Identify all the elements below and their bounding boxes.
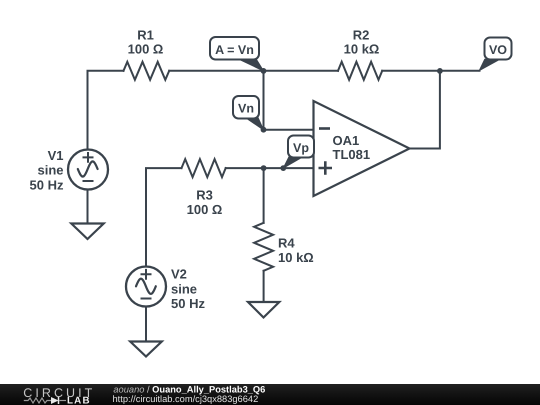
svg-text:10 kΩ: 10 kΩ bbox=[278, 250, 314, 265]
wire Vn node to op-amp inverting input bbox=[264, 129, 314, 131]
wire V1 top lead up and across to R1 bbox=[88, 71, 124, 150]
svg-text:R4: R4 bbox=[278, 235, 295, 250]
wire V2 bottom lead to ground bbox=[145, 307, 147, 342]
op-amp OA1 bbox=[314, 101, 410, 196]
node Vp junction dot bbox=[280, 165, 286, 171]
voltage source V1 bbox=[30, 148, 108, 192]
ground for V1 bbox=[71, 224, 103, 240]
footer title text bbox=[100, 384, 540, 405]
svg-text:50 Hz: 50 Hz bbox=[171, 296, 205, 311]
footer bar bbox=[0, 384, 540, 405]
svg-text:http://circuitlab.com/cj3qx883: http://circuitlab.com/cj3qx883g6642 bbox=[113, 394, 259, 404]
svg-text:sine: sine bbox=[37, 163, 63, 178]
svg-text:Vp: Vp bbox=[293, 141, 309, 155]
svg-text:LAB: LAB bbox=[67, 396, 91, 405]
resistor R1 bbox=[124, 62, 170, 80]
flag A = Vn bbox=[210, 37, 264, 71]
wire V2 top up and across to R3 bbox=[146, 168, 182, 267]
svg-text:OA1: OA1 bbox=[333, 133, 360, 148]
svg-text:V2: V2 bbox=[171, 266, 187, 281]
svg-text:VO: VO bbox=[489, 43, 507, 57]
svg-text:R2: R2 bbox=[353, 28, 370, 43]
svg-text:R3: R3 bbox=[196, 188, 213, 203]
svg-text:V1: V1 bbox=[48, 148, 64, 163]
resistor R4 vertical bbox=[254, 223, 273, 271]
output node junction dot bbox=[437, 68, 443, 74]
svg-text:TL081: TL081 bbox=[333, 147, 371, 162]
flag Vn bbox=[233, 96, 264, 130]
resistor R2 bbox=[338, 62, 382, 80]
wire R1 to R2 through node A bbox=[169, 70, 338, 72]
voltage source V2 bbox=[126, 266, 205, 311]
svg-text:Vn: Vn bbox=[238, 102, 254, 116]
wire R4 to ground bbox=[263, 271, 265, 302]
svg-text:10 kΩ: 10 kΩ bbox=[344, 41, 380, 56]
svg-text:R1: R1 bbox=[137, 28, 154, 43]
svg-text:sine: sine bbox=[171, 281, 197, 296]
wire V1 bottom lead to ground bbox=[87, 190, 89, 224]
svg-text:50 Hz: 50 Hz bbox=[30, 177, 64, 192]
ground for R4 bbox=[248, 302, 279, 318]
wire op-amp output to node bbox=[410, 71, 440, 149]
svg-text:A = Vn: A = Vn bbox=[215, 43, 254, 57]
node R3/R4 junction dot bbox=[261, 165, 267, 171]
flag Vp bbox=[283, 136, 314, 169]
wire node A down to Vn node bbox=[263, 71, 265, 130]
svg-text:100 Ω: 100 Ω bbox=[128, 41, 164, 56]
svg-text:100 Ω: 100 Ω bbox=[187, 202, 223, 217]
ground for V2 bbox=[130, 342, 162, 357]
wire R2 to VO flag bbox=[382, 70, 479, 72]
node A junction dot bbox=[261, 68, 267, 74]
resistor R3 bbox=[182, 159, 226, 177]
flag VO bbox=[479, 38, 511, 71]
CircuitLab logo bbox=[0, 384, 100, 405]
wire R3 to op-amp non-inverting input bbox=[226, 167, 314, 169]
wire node down to R4 bbox=[263, 168, 265, 223]
svg-text:aouano / Ouano_Ally_Postlab3_Q: aouano / Ouano_Ally_Postlab3_Q6 bbox=[113, 384, 265, 394]
node Vn junction dot bbox=[261, 127, 267, 133]
